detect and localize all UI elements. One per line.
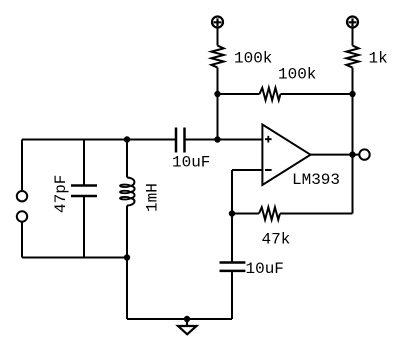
wire: to op-amp minus input — [232, 169, 262, 171]
wire: horizontal 100k to node B — [281, 93, 353, 95]
svg-text:10uF: 10uF — [172, 154, 210, 172]
resistor R 100k (left pull-up, vertical) — [211, 46, 223, 68]
wire: 1k resistor to node B — [352, 68, 354, 94]
resistor R 100k (horizontal) — [260, 88, 281, 100]
svg-text:47k: 47k — [262, 231, 291, 249]
svg-text:1mH: 1mH — [144, 183, 162, 212]
ground — [178, 319, 197, 334]
junction: ground node — [184, 316, 190, 322]
power terminal + (right supply) — [347, 17, 358, 28]
wire: feedback riser up to output node — [352, 155, 354, 214]
junction: bottom-left node — [124, 254, 130, 260]
wire: input terminal to series 10uF — [22, 139, 176, 141]
wire: down to ground rail — [126, 258, 128, 320]
wire: 47k to output riser — [280, 213, 353, 215]
wire: bottom-left horizontal — [22, 257, 127, 259]
junction node B — [349, 91, 355, 97]
input terminal (bottom) — [17, 211, 27, 221]
power terminal + (left supply) — [212, 17, 223, 28]
capacitor C 47pF — [71, 140, 97, 258]
wire: left rail top — [21, 140, 23, 192]
resistor R 1k (output pull-up, vertical) — [346, 46, 358, 68]
wire: ground rail horizontal — [127, 318, 232, 320]
junction: 1mH top node — [124, 136, 130, 142]
svg-text:1k: 1k — [369, 50, 388, 68]
resistor R 47k (feedback) — [259, 207, 280, 219]
op-amp U1 LM393 — [262, 125, 310, 186]
capacitor C 10uF (bottom) — [220, 214, 246, 320]
svg-text:10uF: 10uF — [246, 260, 284, 278]
svg-text:100k: 100k — [278, 66, 316, 84]
wire: op-amp output — [311, 154, 360, 156]
svg-text:LM393: LM393 — [292, 171, 340, 189]
wire: left supply to 100k resistor — [217, 28, 219, 46]
wire: minus input vertical — [231, 170, 233, 214]
wire: node A down to + input net — [217, 94, 219, 140]
wire: left rail bottom — [21, 222, 23, 258]
capacitor C 10uF (series) — [176, 128, 185, 153]
svg-text:47pF: 47pF — [52, 175, 70, 213]
output terminal — [359, 149, 369, 159]
wire: node A to horizontal 100k — [218, 93, 260, 95]
junction: minus input node — [229, 210, 235, 216]
wire: right supply to 1k resistor — [352, 28, 354, 46]
svg-text:100k: 100k — [234, 50, 272, 68]
inductor L 1mH — [120, 140, 135, 258]
junction node A — [214, 91, 220, 97]
wire: series 10uF to op-amp + input — [185, 139, 263, 141]
wire: node B down to output node — [352, 94, 354, 155]
junction: output node — [349, 151, 355, 157]
wire: 100k resistor to node A — [217, 68, 219, 94]
wire: minus node to 47k — [232, 213, 259, 215]
junction: + input node — [214, 136, 220, 142]
input terminal (top) — [17, 191, 27, 201]
